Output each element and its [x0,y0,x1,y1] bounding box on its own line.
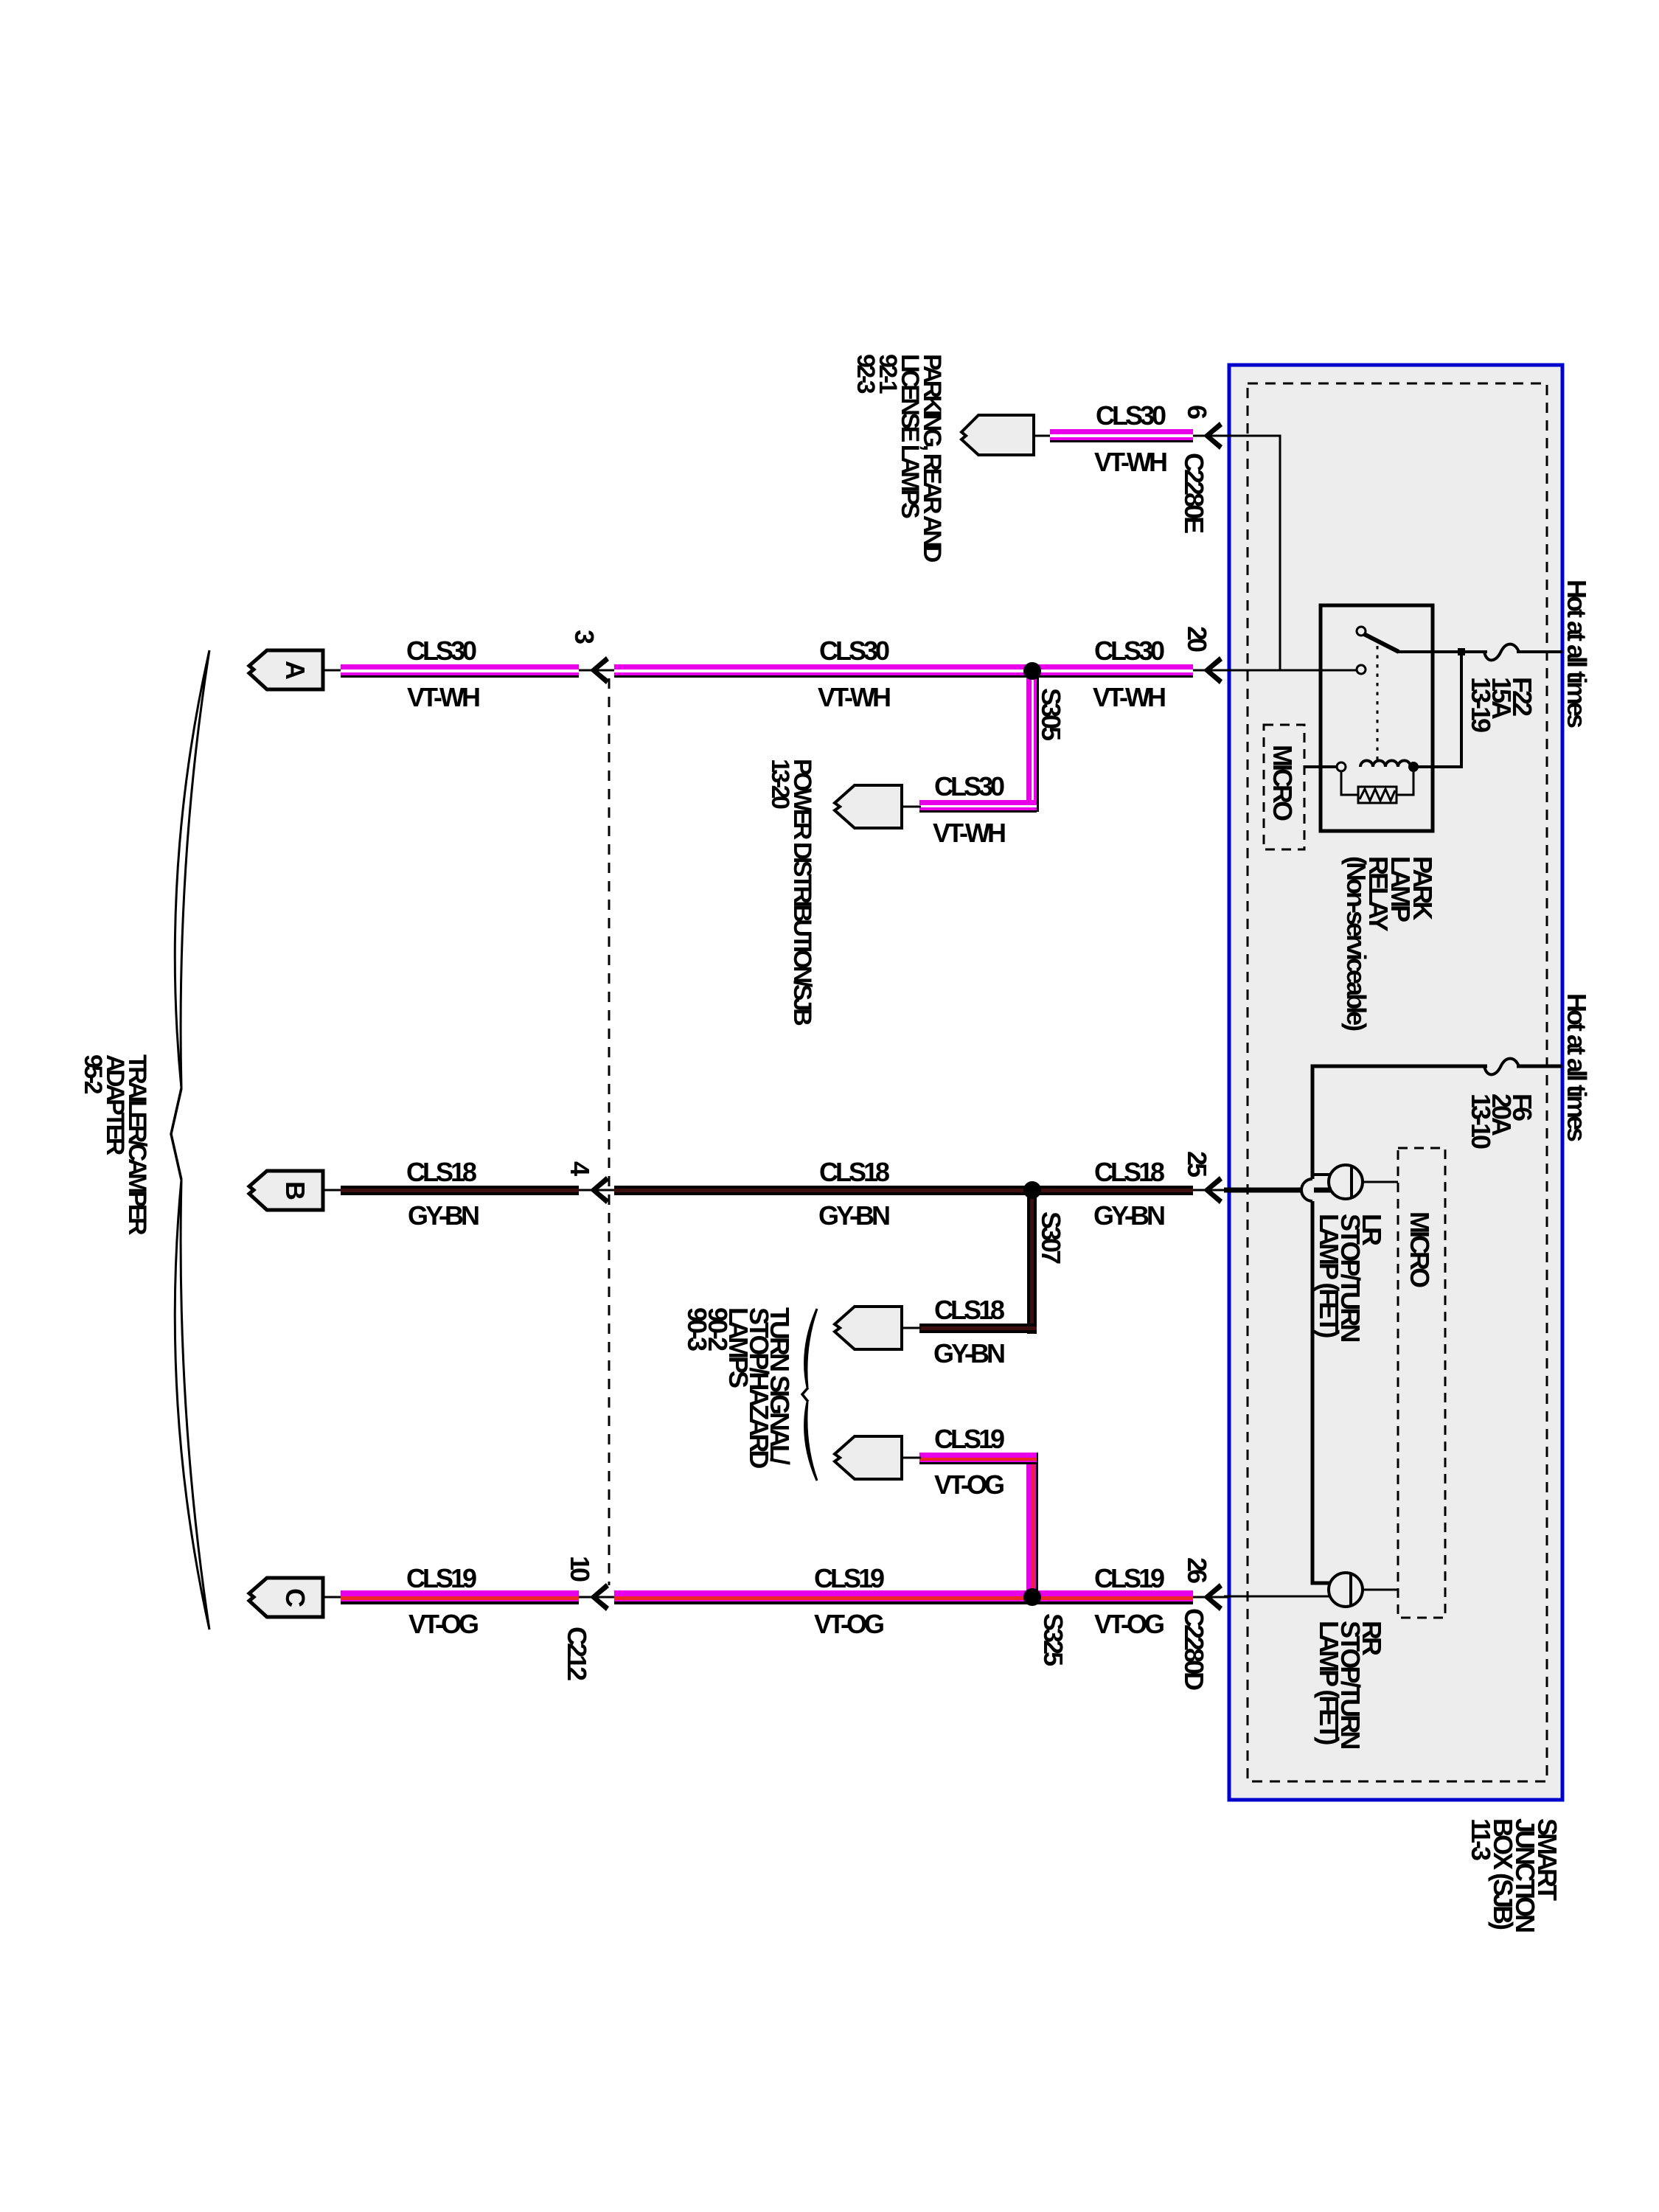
wire: stub at connector A [323,669,342,672]
label VT-OG wire C right [1094,1613,1162,1635]
wire CLS30 VT-WH pin6 segment [1050,429,1193,442]
wire: stub at turn signal connector 2 [902,1457,921,1459]
label fuse F22 [1470,677,1532,730]
label CLS19 S325 branch [934,1428,1002,1450]
label RR stop/turn lamp [1318,1621,1382,1747]
wire CLS30 VT-WH middle segment [614,664,1193,678]
label LR stop/turn lamp [1318,1214,1382,1340]
connector pentagon turn signal 1 [835,1307,902,1349]
pin number 4 [566,1161,593,1173]
wire: resistor right leg [1397,772,1413,795]
label CLS18 wire B right [1094,1161,1162,1183]
label VT-WH wire A left [407,686,478,709]
wire: thin line through C212 arrow row B [579,1189,614,1192]
label CLS30 S305 branch [934,776,1002,798]
junction node on F22 line [1458,648,1465,655]
junction S305 dot [1023,662,1041,680]
pin number 6 [1183,405,1210,417]
wire CLS18 GY-BN middle segment [614,1186,1193,1195]
label park lamp relay [1345,856,1433,1029]
LR lamp bar [1350,1166,1353,1199]
wire: branch to LR lamp [1312,1173,1330,1176]
LR stop/turn lamp FET circle [1329,1165,1363,1199]
turn signal brace lower lens [805,1402,817,1481]
resistor zigzag [1360,789,1395,801]
wire: thin line through C212 arrow row A [579,669,614,672]
label trailer camper adapter [82,1054,148,1232]
label CLS30 wire A right [1094,640,1162,662]
wire: S305 vertical VT-WH [1026,671,1039,812]
wire CLS18 GY-BN left segment [341,1186,579,1195]
label VT-OG S325 branch [934,1474,1002,1496]
pin number 20 [1183,626,1210,650]
wire: thin line through pin20 arrow [1193,669,1229,672]
connector C212 label [563,1627,590,1678]
relay coil [1360,761,1411,768]
label turn signal stop hazard lamps [686,1307,790,1466]
label hot at all times top [1563,580,1590,726]
park lamp relay box [1321,605,1433,831]
wire: pin6 line inside SJB [1224,436,1280,670]
fuse F22 [1484,644,1519,661]
wire: thin line through pin6 arrow [1193,435,1229,437]
pin number 3 [571,630,597,641]
label smart junction box [1470,1818,1558,1930]
arrow at pin 26 [1203,1583,1222,1611]
wire hop over pin25 line [1301,1179,1312,1201]
smart junction box SJB outline [1229,365,1562,1800]
trailer/camper adapter brace lower lens [175,1180,209,1630]
SJB inner dashed border [1248,383,1547,1781]
node S307 label [1037,1211,1064,1262]
trailer/camper adapter brace chevron [171,1088,181,1180]
wire: RR lamp to MICRO2 [1363,1589,1398,1591]
wire: F22 feed line blade to fuse [1397,650,1487,653]
wire: thin line through pin25 arrow [1193,1189,1229,1192]
RR lamp bar [1349,1573,1352,1607]
RR stop/turn lamp FET circle [1329,1573,1363,1607]
arrow at C212 row B [590,1176,609,1204]
pin number 10 [566,1556,593,1579]
wire: S325 vertical VT-OG [1026,1453,1038,1597]
label VT-OG wire C middle [814,1613,882,1635]
label VT-WH wire A right [1093,686,1164,709]
label CLS19 wire C middle [814,1568,882,1590]
connector C2280E label [1180,453,1207,531]
fuse F6 [1484,1059,1519,1075]
wire: relay coil feed from F22 line [1417,652,1461,767]
MICRO2 dashed box [1398,1148,1445,1618]
arrow at pin 25 [1203,1176,1222,1204]
wire: thin line through C212 arrow row C [579,1596,614,1599]
arrow at C212 row A [590,656,609,684]
connector letter A [282,661,308,677]
node S305 label [1037,688,1064,738]
pin number 25 [1183,1151,1210,1175]
relay coil left terminal [1337,762,1346,771]
label CLS30 pin6 wire [1096,405,1164,427]
wire: pin20 line inside SJB to relay common [1224,669,1357,672]
wire: S305 branch horizontal VT-WH [919,800,1037,813]
wire: F6 fuse to corner and down [1312,1066,1487,1179]
label MICRO 2 [1406,1211,1433,1285]
wire: S307 vertical GY-BN [1027,1190,1037,1334]
wire: LR lamp to MICRO2 [1363,1181,1398,1183]
label GY-BN S307 branch [933,1343,1003,1365]
label hot at all times bottom [1563,993,1590,1139]
label VT-WH S305 branch [933,822,1004,844]
trailer/camper adapter brace upper lens [175,650,209,1088]
connector pentagon power distribution [835,785,902,828]
relay switch blade [1364,634,1399,652]
wire: stub at connector C [323,1596,342,1599]
label VT-OG wire C left [408,1613,476,1635]
wire: resistor left leg [1341,771,1358,795]
pin number 26 [1183,1557,1210,1581]
wire: thin line through pin26 arrow [1193,1596,1229,1599]
wire CLS19 VT-OG middle segment [614,1590,1193,1604]
relay NC contact circle [1357,627,1366,636]
connector B pentagon [249,1171,323,1210]
label GY-BN wire B right [1093,1205,1163,1227]
relay actuation dotted line [1377,646,1379,759]
label CLS18 wire B middle [819,1161,887,1183]
relay common contact circle [1357,665,1366,674]
label MICRO 1 [1269,745,1295,818]
label GY-BN wire B middle [818,1205,888,1227]
label CLS19 wire C right [1094,1568,1162,1590]
connector C2280E pentagon (parking lamps) [961,415,1034,455]
connector letter B [282,1181,308,1197]
arrow at C212 row C [590,1583,609,1611]
wire: S307 branch horizontal GY-BN [919,1324,1037,1333]
relay coil right terminal dot [1408,762,1419,772]
connector A pentagon [249,650,323,689]
wire: pin25 stub hop to LR lamp [1314,1188,1332,1193]
wire: F6 feed line from border to fuse [1517,1065,1562,1068]
wire: stub at parking connector [1034,435,1051,437]
wire: coil to MICRO1 [1304,765,1337,768]
wire: stub at turn signal connector 1 [902,1327,921,1329]
connector letter C [282,1588,308,1604]
wire: pin26 line inside SJB [1224,1596,1329,1598]
label CLS18 S307 branch [934,1299,1002,1321]
wire: S325 branch horizontal VT-OG [919,1453,1037,1464]
label VT-WH wire A middle [818,686,888,709]
connector pentagon turn signal 2 [835,1436,902,1479]
junction S307 dot [1023,1181,1041,1199]
MICRO1 dashed box [1264,725,1304,849]
label parking rear and license lamps [855,354,943,560]
wire: F6 vertical continues to RR lamp [1312,1201,1329,1583]
connector C2280D label [1180,1608,1207,1688]
label GY-BN wire B left [408,1205,477,1227]
arrow at pin 20 [1203,656,1222,684]
arrow at pin 6 [1203,422,1222,450]
wire: stub at connector B [323,1189,342,1192]
wire CLS19 VT-OG left segment [341,1590,579,1604]
wire: F22 fuse to border (Hot at all times) [1517,650,1562,653]
label CLS30 wire A left [406,640,474,662]
resistor box [1358,787,1397,803]
label CLS18 wire B left [406,1161,474,1183]
label CLS19 wire C left [406,1568,474,1590]
label VT-WH pin6 wire [1094,451,1165,473]
label power distribution SJB [769,759,813,1023]
junction S325 dot [1023,1588,1041,1606]
turn signal brace upper lens [805,1309,817,1388]
node S325 label [1040,1613,1066,1663]
wire: pin25 line inside SJB [1224,1188,1301,1193]
C212 dashed separator line [608,678,611,1585]
turn signal brace chevron [802,1388,808,1402]
label fuse F6 [1470,1093,1532,1147]
wire CLS30 VT-WH left segment [341,664,579,678]
connector C pentagon [249,1578,323,1617]
wire: stub at power distribution connector [902,806,921,808]
label CLS30 wire A middle [819,640,887,662]
